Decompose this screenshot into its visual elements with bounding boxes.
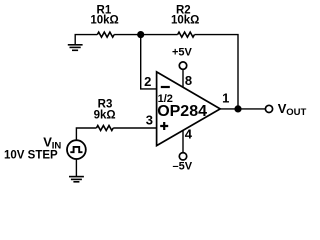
source V_IN 10V STEP (pulse source) (67, 140, 86, 159)
V_OUT terminal (265, 105, 272, 112)
wire (R3 to pin 3) (113, 127, 156, 129)
ground (top left) (68, 35, 98, 51)
resistor R3 (96, 126, 113, 131)
op-amp U1 OP284 (triangle) (157, 72, 221, 146)
svg-text:8: 8 (185, 73, 192, 88)
svg-text:1: 1 (222, 90, 229, 105)
output junction node (feedback tap) (234, 105, 241, 112)
wire (R1 to junction to R2) (114, 34, 178, 36)
svg-text:–5V: –5V (173, 160, 193, 172)
svg-text:OUT: OUT (286, 107, 306, 118)
wire (source bottom to ground) (75, 159, 77, 176)
resistor R1 (97, 32, 114, 37)
svg-text:10V STEP: 10V STEP (4, 149, 58, 161)
svg-text:2: 2 (144, 74, 151, 89)
svg-text:10kΩ: 10kΩ (90, 15, 118, 27)
wire (pin 8 stem to +5V) (182, 69, 184, 87)
svg-text:3: 3 (146, 113, 153, 128)
-5V supply terminal (179, 153, 186, 160)
wire (op-amp output to V_OUT terminal) (220, 108, 266, 110)
svg-text:4: 4 (185, 127, 193, 142)
svg-text:10kΩ: 10kΩ (171, 15, 199, 27)
svg-text:+5V: +5V (172, 47, 193, 59)
svg-text:9kΩ: 9kΩ (94, 110, 116, 122)
inverting input minus sign (161, 86, 170, 88)
non-inverting input plus sign (160, 122, 168, 130)
wire (pin 4 stem to -5V) (182, 130, 184, 152)
+5V supply terminal (179, 62, 186, 69)
wire (source top up to R3) (76, 128, 96, 140)
wire (junction down to pin 2) (141, 35, 157, 89)
junction node A (R1/R2/pin2 feedback) (137, 31, 144, 38)
ground (below source) (69, 177, 84, 182)
wire (R2 right, corner, feedback down to output node) (194, 35, 238, 109)
resistor R2 (178, 32, 195, 37)
svg-text:OP284: OP284 (157, 103, 207, 120)
